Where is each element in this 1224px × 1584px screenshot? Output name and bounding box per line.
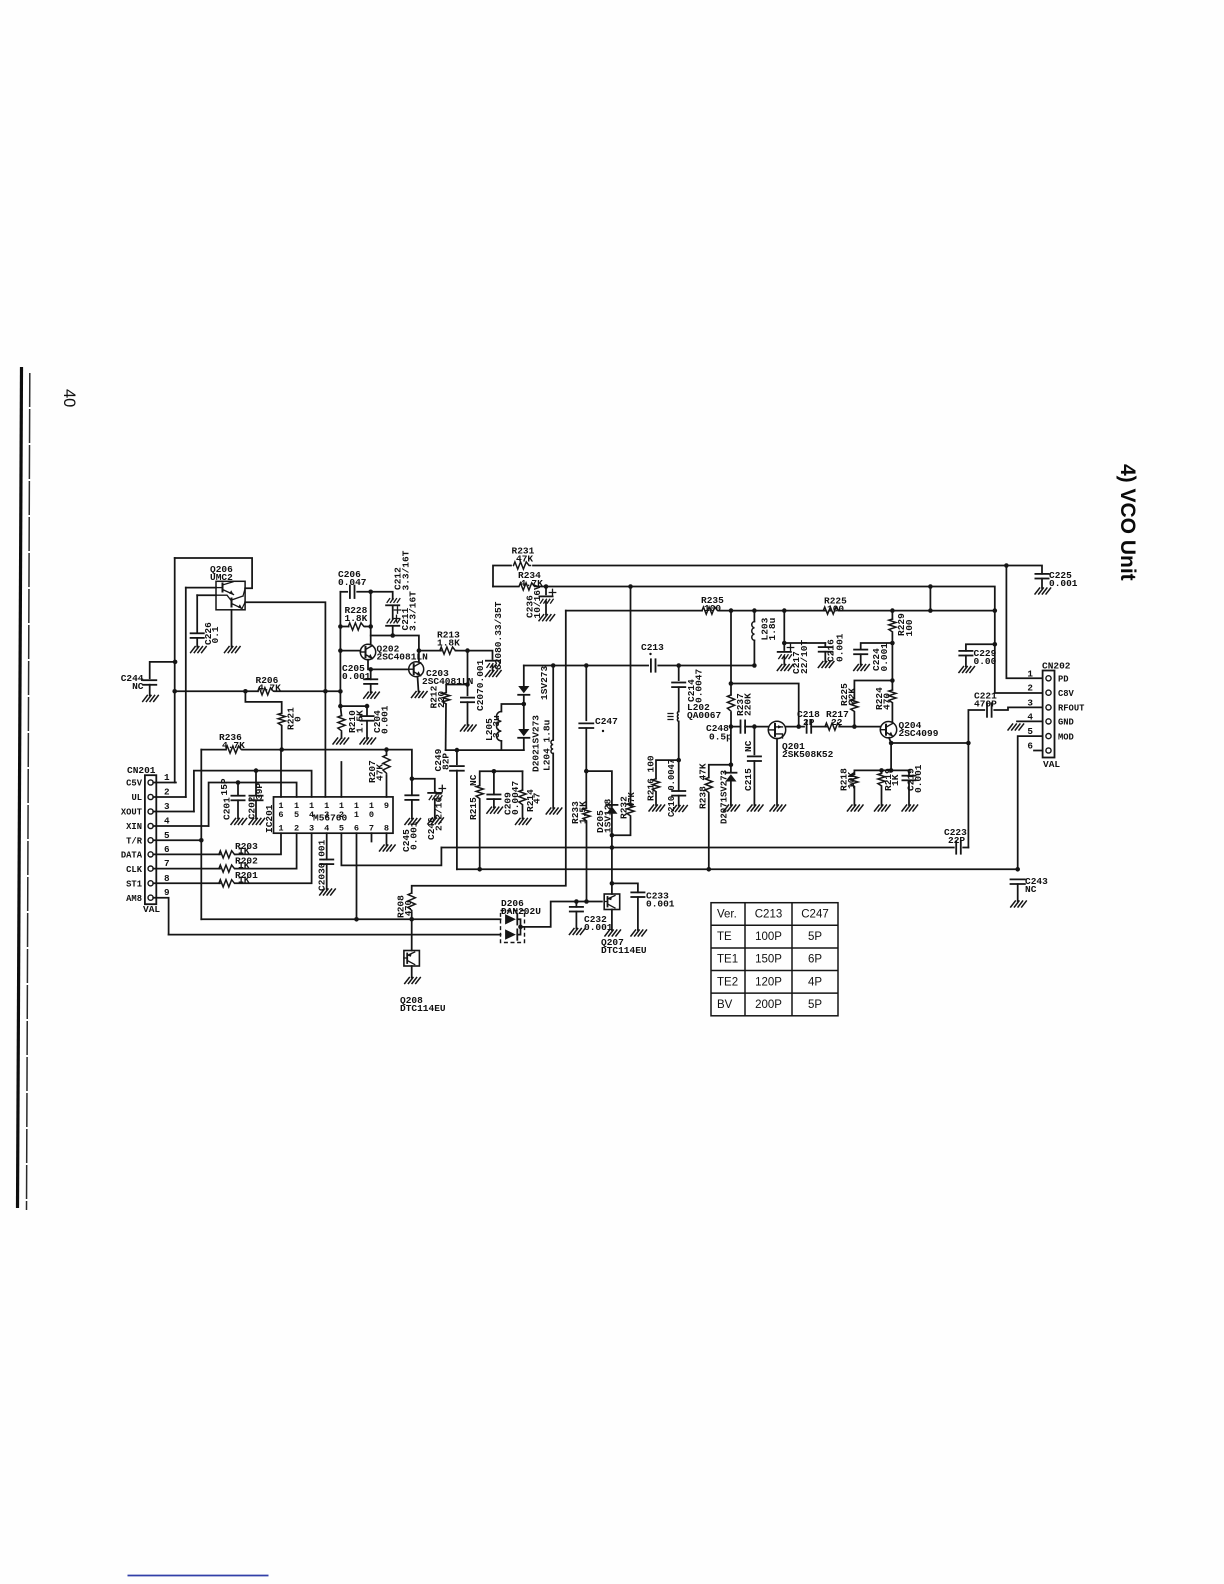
resistor R234: [519, 583, 536, 590]
svg-text:0.0047: 0.0047: [694, 668, 705, 703]
svg-text:QA0067: QA0067: [687, 710, 722, 721]
wire pin6 DATA to R203: [153, 853, 220, 855]
svg-text:NC: NC: [1025, 884, 1037, 895]
resistor R203: [219, 851, 236, 858]
capacitor C236 (10/16V): [545, 587, 547, 595]
resistor R236: [226, 746, 243, 753]
ground C229: [959, 667, 975, 673]
svg-text:CN202: CN202: [1042, 661, 1071, 672]
svg-text:470: 470: [404, 900, 414, 916]
ground C244: [143, 695, 159, 701]
wire Q207 emitter to ground: [611, 910, 613, 931]
svg-text:C8V: C8V: [1058, 689, 1075, 699]
ground C245: [405, 819, 421, 825]
ground C216: [818, 662, 834, 668]
svg-text:DAN202U: DAN202U: [501, 906, 541, 917]
wire B y=869.3 (varicap rail): [457, 868, 1018, 870]
capacitor C211 (3.3/16T): [386, 625, 399, 627]
ground C210: [672, 806, 688, 812]
svg-text:M56760: M56760: [313, 813, 348, 824]
svg-text:2.2/16T: 2.2/16T: [434, 791, 445, 831]
ground C215: [747, 805, 763, 811]
svg-text:100: 100: [827, 604, 844, 615]
ground C236: [539, 615, 555, 621]
svg-text:VAL: VAL: [143, 904, 160, 915]
svg-text:150P: 150P: [755, 954, 782, 966]
capacitor C223 22P: [955, 841, 957, 853]
svg-text:0.00: 0.00: [974, 656, 997, 667]
svg-text:5: 5: [339, 824, 344, 834]
capacitor C215 NC: [753, 727, 755, 755]
svg-text:CN201: CN201: [127, 765, 156, 776]
capacitor C208 (0.33/35T): [486, 660, 499, 662]
svg-text:6P: 6P: [808, 954, 822, 966]
svg-text:C210 0.0047: C210 0.0047: [667, 759, 677, 817]
capacitor C221 470P: [986, 703, 988, 717]
svg-text:220K: 220K: [743, 693, 754, 716]
wire RFOUT column: [968, 710, 984, 743]
diode D206 DAN202U (dual): [501, 911, 525, 943]
ground Q207: [605, 930, 621, 936]
svg-text:0.001: 0.001: [835, 633, 846, 662]
svg-text:6: 6: [1027, 741, 1033, 752]
capacitor C206: [349, 586, 351, 598]
resistor R229: [891, 611, 893, 619]
capacitor C202: [254, 768, 259, 773]
resistor R232 47K column: [630, 587, 632, 804]
svg-text:10/16V: 10/16V: [532, 584, 543, 619]
svg-text:0.001: 0.001: [380, 705, 391, 734]
node C244 junction: [173, 660, 178, 665]
svg-text:DTC114EU: DTC114EU: [601, 945, 647, 956]
ground R216: [649, 805, 665, 811]
resistor R217 22: [825, 723, 842, 730]
svg-text:NC: NC: [468, 774, 479, 786]
capacitor C205: [370, 669, 372, 679]
ground C219: [902, 805, 918, 811]
wire Q202 emitter: [368, 660, 409, 670]
svg-text:VAL: VAL: [1043, 759, 1060, 770]
capacitor C226: [196, 595, 198, 633]
ground C203: [320, 889, 336, 895]
svg-text:C215: C215: [743, 768, 754, 791]
svg-text:2: 2: [294, 824, 299, 834]
node C245/C246 junction: [410, 776, 415, 781]
ground Q201: [770, 805, 786, 811]
capacitor C209: [493, 771, 495, 794]
svg-text:22P: 22P: [948, 835, 965, 846]
inductor L205: [501, 704, 523, 712]
svg-text:C213: C213: [755, 909, 783, 921]
transistor Q202: [360, 644, 375, 659]
IC U201 M56760 body: [274, 797, 394, 833]
blue footer rule: [128, 1575, 269, 1577]
svg-text:C213: C213: [641, 642, 664, 653]
svg-text:Ver.: Ver.: [717, 909, 737, 921]
svg-text:6: 6: [354, 824, 359, 834]
svg-text:2SC4099: 2SC4099: [899, 728, 939, 739]
ground C207: [461, 725, 477, 731]
wire Q202 base column x=340.4: [339, 592, 341, 706]
svg-text:C2030.001: C2030.001: [317, 839, 328, 891]
connector CN201 body: [145, 775, 156, 904]
wire pin2 UL: [153, 796, 186, 798]
node E5V junctions: [172, 689, 177, 694]
svg-text:47K: 47K: [516, 554, 533, 565]
resistor R231: [514, 562, 531, 569]
wire pin8 ST1 to R201: [153, 882, 220, 884]
capacitor C243 NC: [1011, 878, 1025, 880]
svg-text:22/10T: 22/10T: [799, 639, 810, 674]
svg-text:1.8K: 1.8K: [437, 638, 460, 649]
svg-text:C247: C247: [801, 909, 829, 921]
svg-text:1SV128: 1SV128: [603, 798, 614, 833]
svg-text:15P: 15P: [219, 778, 230, 795]
wire Q208 emitter to ground: [411, 966, 413, 978]
capacitor C233: [612, 883, 638, 892]
svg-text:0.001: 0.001: [913, 764, 924, 793]
capacitor C214: [678, 666, 680, 681]
wire emitter rail to RFOUT node: [891, 742, 968, 744]
resistor R215 NC: [479, 800, 481, 870]
svg-text:ST1: ST1: [126, 880, 142, 890]
ground D207: [724, 805, 740, 811]
resistor R207: [386, 750, 388, 755]
resistor R235: [702, 607, 719, 614]
diode D205 1SV128 column: [586, 771, 612, 806]
resistor R212: [446, 684, 467, 686]
svg-text:C247: C247: [595, 716, 618, 727]
svg-text:22K: 22K: [847, 688, 858, 705]
svg-text:9: 9: [164, 887, 170, 898]
wire pin6 stub: [1034, 750, 1043, 752]
svg-text:1SV273: 1SV273: [539, 665, 550, 700]
ground C209: [487, 807, 503, 813]
svg-text:22: 22: [831, 717, 843, 728]
wire control rail y=919.3: [201, 918, 500, 920]
wire Q206 collector-2 to E5V: [245, 602, 325, 797]
svg-text:100P: 100P: [755, 931, 782, 943]
ground C208: [486, 671, 502, 677]
wire Q206 collector-1 loop: [175, 558, 252, 588]
svg-text:5: 5: [164, 830, 170, 841]
wire IC pin8 to ground: [386, 833, 388, 845]
ground C205: [364, 692, 380, 698]
svg-text:CLK: CLK: [126, 865, 143, 875]
left border rule (thin): [27, 373, 30, 1210]
diode D202 1SV273 column: [523, 666, 525, 687]
resistor R202: [219, 865, 236, 872]
wire C217/C216 stub: [783, 611, 785, 650]
resistor R206: [258, 688, 275, 695]
svg-text:3: 3: [164, 801, 170, 812]
svg-text:C5V: C5V: [126, 779, 143, 789]
svg-text:TE2: TE2: [717, 976, 738, 988]
svg-text:2: 2: [164, 787, 170, 798]
capacitor C217 22/10T: [787, 644, 793, 650]
svg-text:NC: NC: [132, 681, 144, 692]
svg-text:1.8u: 1.8u: [767, 617, 778, 640]
resistor R225: [823, 607, 840, 614]
svg-text:2P: 2P: [803, 717, 815, 728]
wire pin3 XOUT: [153, 811, 194, 813]
svg-text:0.5p: 0.5p: [709, 732, 732, 743]
svg-text:1K: 1K: [890, 774, 901, 786]
ground C202: [249, 818, 265, 824]
resistor R216: [656, 760, 679, 779]
ground C225: [1035, 588, 1051, 594]
ground C204: [360, 738, 376, 744]
resistor R226 22K: [854, 681, 892, 699]
ground Q208: [405, 978, 421, 984]
ground CN202 pin4: [1008, 724, 1024, 730]
svg-text:MOD: MOD: [1058, 732, 1074, 742]
wire AM8 rail y=934.6: [169, 934, 501, 936]
ground C217: [777, 665, 793, 671]
svg-text:0.001: 0.001: [879, 643, 890, 672]
capacitor C248 0.5p: [731, 726, 741, 728]
ground R214: [516, 818, 532, 824]
svg-text:0: 0: [293, 716, 304, 722]
wire C209/R214 rail y=771.3: [494, 770, 523, 772]
connector CN202 body: [1043, 671, 1055, 758]
wire E5V rail y=691.3: [175, 690, 258, 692]
svg-text:UL: UL: [131, 793, 142, 803]
wire pin4 XIN: [153, 825, 208, 827]
svg-text:R215: R215: [468, 797, 479, 820]
wire CBV column x=994.8: [995, 611, 1043, 693]
svg-text:3.3/16T: 3.3/16T: [401, 550, 412, 590]
wire IC pin12 stub: [340, 762, 342, 797]
svg-text:47K: 47K: [375, 764, 386, 781]
wire IC pin7 stub: [371, 833, 373, 841]
svg-text:8: 8: [384, 824, 389, 834]
capacitor C216: [824, 643, 826, 647]
svg-text:XIN: XIN: [126, 822, 142, 832]
capacitor C219: [908, 770, 910, 775]
capacitor C247 column: [585, 666, 587, 721]
capacitor C218 2P: [806, 720, 808, 732]
wire MOD pin5 column: [1018, 736, 1043, 869]
wire pin1 C5V: [153, 782, 176, 784]
svg-text:XOUT: XOUT: [121, 808, 143, 818]
wire IC pin6 down: [356, 833, 358, 919]
svg-text:8: 8: [164, 873, 170, 884]
svg-text:UMC2: UMC2: [210, 572, 233, 583]
svg-text:D2071SV273: D2071SV273: [720, 770, 730, 824]
resistor R213 rail: [419, 650, 441, 652]
capacitor C203 on IC pin4: [326, 833, 328, 859]
wire bus2 y=586.5: [493, 586, 518, 588]
resistor R221: [278, 713, 285, 725]
svg-text:TE1: TE1: [717, 954, 738, 966]
svg-text:4: 4: [164, 816, 170, 827]
wire pin9 AM8: [153, 898, 168, 935]
ground Q206 emitter: [225, 647, 241, 653]
inductor L203 1.8u: [753, 611, 755, 622]
resistor R228: [348, 623, 365, 630]
wire R218/R219/C219 rail: [854, 769, 909, 771]
ground L204: [546, 808, 562, 814]
wire bus3 left column to R208: [412, 611, 566, 893]
wire T/R column: [200, 750, 202, 920]
svg-text:220: 220: [436, 691, 447, 708]
svg-text:4.7K: 4.7K: [222, 740, 245, 751]
svg-text:AM8: AM8: [126, 894, 142, 904]
capacitor C212 (3.3/16T): [386, 604, 399, 606]
svg-text:9: 9: [384, 801, 389, 811]
ground R219: [875, 805, 891, 811]
ground R210: [333, 738, 349, 744]
svg-text:1: 1: [164, 772, 170, 783]
svg-text:5: 5: [294, 810, 299, 820]
resistor R238 47K: [709, 765, 731, 778]
wire IC pin5 jog to wire-A: [341, 833, 441, 865]
ground R218: [847, 805, 863, 811]
svg-text:47: 47: [532, 792, 543, 804]
svg-text:0.001: 0.001: [646, 899, 675, 910]
wire Q203 emitter to ground: [418, 677, 419, 692]
svg-text:IC201: IC201: [264, 804, 275, 833]
svg-text:BV: BV: [717, 999, 733, 1011]
capacitor C204 0.001: [340, 706, 367, 716]
svg-text:NC: NC: [743, 740, 754, 752]
wire R236 rail y=749.6: [201, 749, 226, 751]
diode D207 1SV273 column: [730, 727, 732, 773]
svg-text:3: 3: [1027, 697, 1033, 708]
svg-text:1: 1: [1027, 668, 1033, 679]
transistor Q204: [880, 722, 896, 738]
ground IC pin8: [380, 845, 396, 851]
ground C201: [231, 818, 247, 824]
transistor Q201 2SK508K52 (FET): [768, 721, 785, 738]
svg-text:1K: 1K: [238, 875, 250, 886]
node R221 bottom: [279, 747, 284, 752]
capacitor C246 2.2/16T: [412, 779, 435, 792]
svg-text:R216 100: R216 100: [646, 755, 657, 801]
svg-text:2SK508K52: 2SK508K52: [782, 749, 834, 760]
svg-text:6: 6: [164, 844, 170, 855]
wire IC pin16 up to R221 node: [280, 750, 282, 797]
wire PD column: [1006, 566, 1042, 679]
wire L205/D201 bottom rail y=750.1: [446, 749, 524, 751]
svg-text:0.001: 0.001: [342, 671, 371, 682]
svg-text:10K: 10K: [846, 772, 857, 789]
wire Q206 base1 from UL: [186, 587, 216, 589]
wire C5V column x=175: [174, 558, 176, 783]
resistor R237 220K column: [730, 611, 732, 695]
svg-text:C201: C201: [222, 797, 233, 820]
svg-text:7: 7: [369, 824, 374, 834]
ground C246: [428, 818, 444, 824]
wire bus3 y=610.6 (R235/R225 rail): [566, 610, 702, 612]
capacitor C201: [236, 780, 241, 785]
resistor R218 10K: [853, 770, 855, 774]
capacitor C245: [411, 779, 413, 796]
wire pin7 CLK to R202: [153, 868, 220, 870]
resistor R210 1.5K: [340, 706, 341, 716]
left border rule (thick): [18, 367, 22, 1208]
wire A y=847.5 (IC pin5 rail): [441, 847, 953, 849]
svg-text:L204 1.8u: L204 1.8u: [542, 719, 553, 771]
wire Q206 base2 stub: [197, 594, 216, 596]
ground C232: [569, 929, 585, 935]
svg-text:40: 40: [60, 389, 78, 407]
wire UL column x=186: [185, 588, 187, 797]
svg-text:C2080.33/35T: C2080.33/35T: [493, 601, 504, 670]
transistor Q208 DTC114EU: [404, 951, 420, 967]
svg-text:4.7K: 4.7K: [258, 683, 281, 694]
wire Q201 source to ground: [776, 739, 778, 805]
transistor Q207 DTC114EU: [604, 894, 620, 910]
svg-text:100: 100: [904, 619, 915, 636]
resistor R219 1K: [881, 770, 883, 773]
capacitor C244: [150, 662, 175, 678]
svg-text:0: 0: [369, 810, 374, 820]
svg-text:GND: GND: [1058, 718, 1074, 728]
svg-text:0.1: 0.1: [210, 626, 221, 643]
capacitor C224: [861, 643, 893, 650]
svg-text:R238 47K: R238 47K: [698, 763, 709, 809]
svg-text:3: 3: [309, 824, 314, 834]
svg-text:DATA: DATA: [121, 851, 143, 861]
svg-text:2SC4081LN: 2SC4081LN: [377, 652, 429, 663]
svg-text:1: 1: [354, 810, 359, 820]
svg-text:470: 470: [882, 693, 893, 710]
ground C233: [631, 930, 647, 936]
svg-text:0.047: 0.047: [338, 577, 367, 588]
ground C243: [1011, 901, 1027, 907]
wire pin5 T/R: [153, 839, 201, 841]
wire feedback loop to drain: [731, 684, 799, 727]
wire link x=930.4: [929, 587, 931, 611]
capacitor C232: [575, 902, 577, 907]
svg-text:2: 2: [1027, 683, 1033, 694]
wire XOUT to IC pin14: [194, 771, 312, 812]
svg-text:200P: 200P: [755, 999, 782, 1011]
svg-text:4P: 4P: [808, 976, 822, 988]
capacitor C207: [467, 651, 469, 696]
svg-text:82P: 82P: [441, 753, 452, 770]
table of versions: [711, 903, 838, 1016]
resistor R201: [219, 880, 236, 887]
wire Q201 drain to C218: [786, 726, 804, 728]
transistor Q203: [409, 662, 424, 677]
capacitor C225: [1035, 573, 1048, 575]
svg-text:4) VCO Unit: 4) VCO Unit: [1116, 464, 1139, 581]
svg-text:47K: 47K: [627, 791, 637, 808]
resistor R208 470: [408, 893, 415, 910]
svg-text:3.3/16T: 3.3/16T: [408, 591, 419, 631]
svg-text:T/R: T/R: [126, 837, 143, 847]
capacitor C210: [678, 760, 680, 791]
svg-text:120P: 120P: [755, 976, 782, 988]
svg-text:TE: TE: [717, 931, 732, 943]
svg-text:DTC114EU: DTC114EU: [400, 1003, 446, 1014]
svg-text:5P: 5P: [808, 931, 822, 943]
capacitor C229: [966, 644, 995, 651]
svg-text:PD: PD: [1058, 675, 1069, 685]
node R207 top: [384, 747, 389, 752]
svg-text:5P: 5P: [808, 999, 822, 1011]
svg-text:C2070.001: C2070.001: [475, 659, 486, 711]
resistor R233 column: [585, 771, 587, 808]
svg-text:7: 7: [164, 858, 170, 869]
svg-text:1.8K: 1.8K: [345, 613, 368, 624]
transistor Q206 (UMC2 dual): [216, 581, 245, 610]
wire C223/wire-A column: [967, 743, 969, 848]
wire bus1 y=565.5 (R231 rail): [493, 566, 511, 587]
